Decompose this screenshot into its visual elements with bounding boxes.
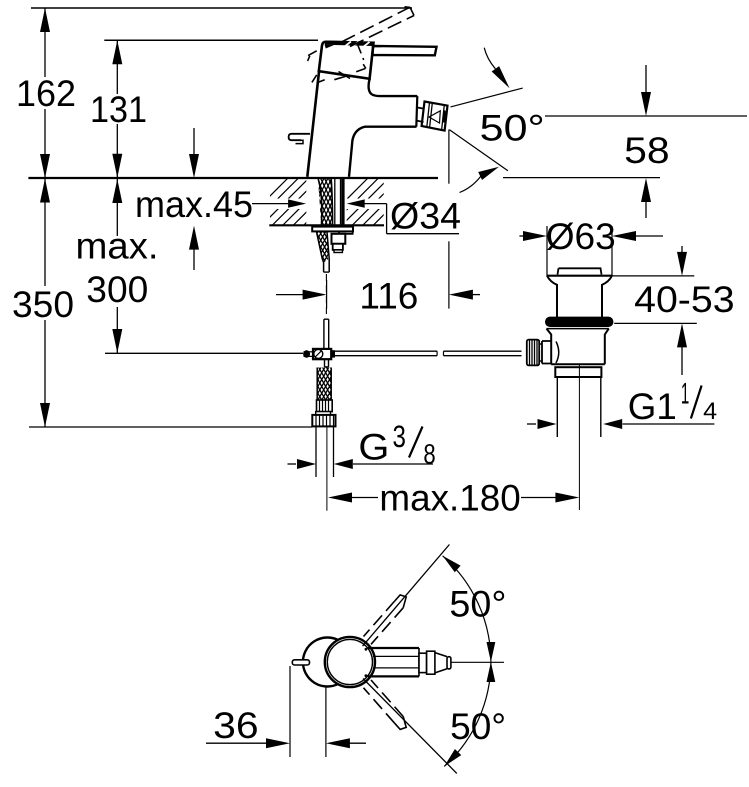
- clamp lower tube: [324, 359, 326, 367]
- svg-text:Ø63: Ø63: [546, 216, 616, 257]
- deck hatching right block: [320, 178, 452, 226]
- lower braided hose: [317, 368, 331, 401]
- faucet lever bar: [373, 46, 437, 55]
- hose tube end: [324, 271, 330, 273]
- faucet handle top cap thick edge: [325, 43, 373, 44]
- svg-text:3: 3: [393, 419, 406, 454]
- faucet spout end face: [416, 96, 417, 127]
- dimension 350 arrows: [40, 179, 50, 203]
- dimension max.180 arrows: [328, 493, 352, 503]
- dashed raised lever end cap: [410, 7, 414, 15]
- dimension 40-53 extension lines: [613, 275, 695, 277]
- lower angular arc 50 degrees: [444, 662, 491, 766]
- svg-text:max.: max.: [76, 226, 159, 267]
- waste body lip: [547, 328, 609, 330]
- top view lever pin: [292, 660, 309, 665]
- dashed hose centerline: [325, 274, 327, 318]
- top view spout end face: [418, 648, 420, 676]
- top view handle circle inner: [327, 639, 372, 684]
- svg-text:116: 116: [359, 276, 418, 317]
- rod left ball end: [303, 350, 310, 357]
- dimension G3/8 arrows: [288, 463, 297, 465]
- ghost line anchor dots: [365, 648, 368, 651]
- waste body bottom: [551, 363, 605, 365]
- faucet body right edge upper and spout top: [369, 79, 418, 96]
- dimension 116 extension line left: [326, 280, 328, 309]
- dimension 40-53 arrows: [681, 246, 683, 255]
- faucet spout bottom and body right edge lower: [349, 127, 417, 177]
- deck top line: [28, 177, 438, 179]
- dimension Ø34 right arrow and leader to label: [347, 199, 365, 207]
- faucet side pin: [289, 134, 310, 140]
- dimension 350 vertical line: [44, 179, 46, 287]
- svg-text:4: 4: [703, 398, 717, 425]
- upper swivel arc with arrowhead: [484, 48, 495, 69]
- dimension Ø63 arrows: [519, 235, 527, 237]
- svg-text:350: 350: [12, 284, 74, 325]
- side port knurled nut: [527, 340, 539, 366]
- G3/8 pipe lines: [315, 426, 317, 477]
- dimension 162 arrows: [40, 8, 50, 32]
- reference line (131 datum): [104, 39, 318, 41]
- max.300 leader line to pop-up rod: [105, 352, 303, 354]
- deck bottom line: [269, 224, 384, 226]
- mounting nut: [332, 234, 346, 244]
- braided hose below deck: [317, 232, 324, 272]
- lower swivel arc with arrowhead: [460, 176, 481, 192]
- aerator neck: [417, 108, 424, 109]
- svg-text:8: 8: [423, 439, 435, 470]
- dimension 36 arrows: [206, 742, 270, 744]
- top view aerator segments: [419, 653, 427, 672]
- dashed raised lever line 1: [342, 7, 411, 42]
- dimension max.300 arrows: [112, 179, 122, 203]
- horizontal pop-up rod right segment: [444, 350, 522, 352]
- clamp right collar: [331, 350, 335, 357]
- pipe centerline extension: [326, 426, 328, 510]
- aerator band lines: [427, 102, 430, 127]
- hose crimp sleeve: [317, 400, 333, 412]
- deck hatching left block: [240, 178, 372, 226]
- spout height line (58 datum): [545, 115, 747, 117]
- svg-text:300: 300: [86, 269, 148, 310]
- svg-text:G1: G1: [628, 386, 677, 427]
- reference line top (162 datum): [31, 7, 412, 9]
- svg-text:50°: 50°: [480, 108, 545, 149]
- aerator outlet slot: [444, 111, 445, 123]
- aerator axis line upper (50 degree ray): [451, 88, 523, 107]
- top view dashed handle ghost upper: [364, 601, 395, 636]
- aerator body: [422, 102, 448, 131]
- svg-text:40-53: 40-53: [634, 279, 735, 320]
- waste coupling ring: [555, 367, 601, 377]
- svg-text:Ø34: Ø34: [390, 196, 461, 237]
- horizontal pop-up rod left segment: [335, 350, 437, 352]
- top view spout inner lines: [373, 655, 419, 657]
- upper angular arc 50 degrees: [443, 556, 491, 662]
- top view body lobe: [303, 638, 338, 687]
- dimension max.300 vertical line: [116, 179, 118, 236]
- waste flange trumpet sides: [547, 276, 557, 317]
- shank braided hose in deck hole: [318, 179, 322, 225]
- faucet body left edge: [307, 72, 319, 177]
- waste centerline extension: [578, 364, 580, 511]
- deck line right extension: [503, 177, 660, 179]
- svg-text:36: 36: [213, 705, 259, 746]
- dimension 36 extension lines: [289, 666, 291, 757]
- top view dashed handle ghost lower: [364, 688, 395, 723]
- dimension G1 1/4 arrows: [527, 423, 536, 425]
- dimension 131 arrows: [112, 40, 122, 64]
- svg-text:G: G: [358, 427, 389, 468]
- svg-text:50°: 50°: [450, 706, 506, 747]
- waste knob: [558, 268, 602, 274]
- waste flange top: [547, 275, 612, 277]
- aerator axis line lower: [450, 130, 508, 171]
- svg-text:162: 162: [16, 73, 76, 114]
- faucet handle sleeve: [319, 42, 374, 79]
- mounting flange below deck: [312, 227, 353, 232]
- pop-up rod vertical: [323, 319, 325, 349]
- top view handle circle outer: [325, 637, 375, 687]
- dimension max.45 vertical arrows (deck thickness): [193, 128, 195, 158]
- dashed raised lever line 2: [350, 16, 414, 47]
- waste O-ring seal: [545, 317, 613, 327]
- top view upper 50 degree ray: [363, 545, 450, 647]
- dashed raised handle sleeve ghost marks: [308, 51, 317, 56]
- G3/8 connection nut: [312, 415, 335, 427]
- shank threaded stud: [341, 179, 344, 225]
- svg-text:1: 1: [681, 378, 689, 411]
- dimension 58 arrows: [645, 65, 647, 95]
- svg-text:max.45: max.45: [135, 184, 253, 225]
- shank pipe lines: [334, 179, 336, 225]
- clamp screw: [314, 349, 323, 358]
- top view spout outer lines: [368, 647, 419, 649]
- svg-text:50°: 50°: [449, 584, 506, 625]
- svg-text:max.180: max.180: [379, 477, 520, 518]
- svg-text:131: 131: [90, 89, 147, 130]
- 350 datum line at hose end: [29, 426, 312, 428]
- waste tailpipe: [556, 377, 558, 437]
- top view centerline: [451, 661, 504, 663]
- dimension Ø63 extension lines: [546, 226, 548, 276]
- aerator flow triangle: [429, 111, 440, 123]
- svg-text:58: 58: [624, 130, 670, 171]
- pop-up rod clamp block: [313, 349, 331, 359]
- hose washer: [316, 412, 331, 415]
- top view lower 50 degree ray: [363, 679, 457, 774]
- dimension 162 vertical line: [44, 8, 46, 77]
- dimension 131 vertical line: [116, 40, 118, 94]
- Ø34 extension line from aerator: [448, 130, 450, 184]
- dimension Ø34 left arrow at hole edge: [252, 203, 292, 205]
- dimension 116 arrows: [276, 294, 305, 296]
- waste side port: [542, 341, 551, 364]
